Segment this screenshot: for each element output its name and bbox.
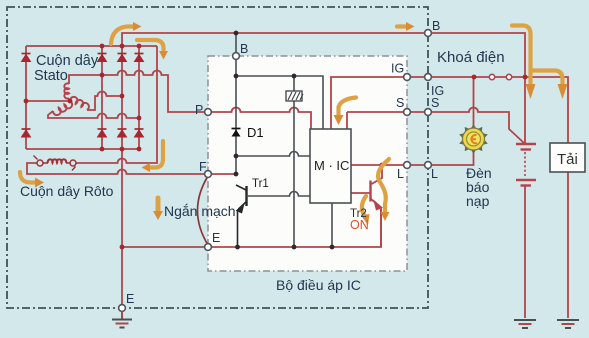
svg-text:nạp: nạp bbox=[466, 193, 490, 209]
svg-text:Tr1: Tr1 bbox=[252, 178, 269, 190]
svg-text:S: S bbox=[431, 96, 439, 110]
svg-text:L: L bbox=[397, 167, 404, 181]
svg-text:ON: ON bbox=[350, 218, 369, 232]
svg-text:Khoá điện: Khoá điện bbox=[437, 49, 505, 66]
svg-text:E: E bbox=[212, 231, 220, 245]
svg-text:Cuộn dây: Cuộn dây bbox=[36, 53, 99, 69]
svg-text:S: S bbox=[396, 96, 404, 110]
svg-text:Cuộn dây Rôto: Cuộn dây Rôto bbox=[20, 183, 114, 199]
svg-text:M · IC: M · IC bbox=[314, 158, 349, 173]
svg-text:Bộ điều áp IC: Bộ điều áp IC bbox=[276, 277, 361, 293]
svg-text:Tải: Tải bbox=[557, 151, 578, 168]
svg-text:Ngắn mạch: Ngắn mạch bbox=[164, 203, 236, 219]
svg-text:B: B bbox=[432, 19, 440, 33]
svg-text:B: B bbox=[240, 42, 248, 56]
svg-text:IG: IG bbox=[391, 62, 404, 76]
svg-text:E: E bbox=[126, 292, 134, 306]
svg-text:L: L bbox=[431, 167, 438, 181]
svg-text:F: F bbox=[199, 160, 207, 174]
svg-text:D1: D1 bbox=[247, 125, 264, 140]
svg-text:P: P bbox=[195, 103, 203, 117]
svg-text:Stato: Stato bbox=[34, 68, 68, 84]
